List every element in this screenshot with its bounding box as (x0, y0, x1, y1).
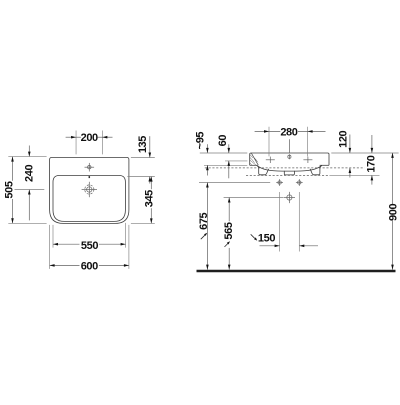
dimension 280 (fixing holes spacing) (255, 126, 326, 156)
svg-text:900: 900 (387, 204, 399, 221)
faucet hole (85, 163, 95, 172)
dashed reference line (bolt holes) (205, 167, 365, 169)
drain (82, 182, 97, 197)
svg-text:280: 280 (280, 126, 297, 138)
dimension 170 (rim to feet line) (366, 135, 378, 185)
svg-text:240: 240 (23, 165, 35, 182)
rim top edge and body sides (250, 153, 329, 165)
dimension ~95 (rim to body bottom) (194, 132, 208, 176)
svg-text:675: 675 (198, 212, 210, 229)
rim top extension lines (200, 152, 248, 154)
body bottom edge right (320, 164, 329, 166)
feet bottom dashed line + extension right (246, 174, 330, 176)
dimension 900 (rim height) (387, 153, 399, 270)
drain outlet symbol (284, 192, 295, 203)
svg-text:135: 135 (137, 136, 149, 153)
svg-text:60: 60 (217, 135, 229, 147)
dimension 565 (drain height) (223, 198, 235, 270)
body bottom edge left (250, 164, 258, 166)
tap hole (elevation) with centerline (288, 139, 291, 159)
water supply crosses (276, 179, 303, 186)
svg-text:170: 170 (366, 155, 378, 172)
supply level extension line (675) (199, 182, 270, 184)
dimension 240 (left, rim to drain) (15, 146, 45, 221)
floor line (197, 270, 396, 273)
dimension 150 (supply spacing) (251, 192, 318, 252)
dimension 345 (right, bowl depth) (131, 177, 156, 224)
body bottom extension line (~95) (204, 164, 247, 166)
right mounting foot (310, 165, 322, 174)
drain boss (284, 171, 294, 175)
basin outer outline (50, 158, 129, 224)
left mounting foot (257, 165, 269, 174)
svg-text:550: 550 (81, 240, 98, 252)
deck level extension line (60) (225, 160, 247, 162)
svg-text:200: 200 (81, 132, 98, 144)
svg-text:~95: ~95 (194, 132, 206, 150)
drain level extension line (565) (224, 197, 284, 199)
section hatch triangle (left end) (251, 153, 258, 165)
svg-text:120: 120 (337, 130, 349, 147)
overflow tick (88, 176, 90, 178)
dimension 505 (left, overall depth) (3, 157, 46, 224)
dimension 120 (rim to bolt line) (337, 130, 351, 177)
dimension 135 (right, rim to bowl) (127, 136, 154, 184)
svg-text:345: 345 (144, 190, 156, 207)
dimension 200 (tap hole spacing) (66, 131, 113, 155)
dimension 550 (bottom, bowl width) (53, 223, 126, 252)
dimension 675 (supply height) (198, 183, 210, 270)
svg-text:150: 150 (258, 232, 275, 244)
dimension 60 (rim to deck) (217, 135, 230, 179)
basin inner bowl outline (53, 175, 125, 221)
bowl underside curve (257, 165, 322, 171)
svg-text:505: 505 (3, 181, 15, 198)
svg-text:600: 600 (81, 260, 98, 272)
dimension 600 (bottom, overall width) (50, 225, 129, 272)
svg-text:565: 565 (223, 222, 235, 239)
fixing hole crosses on body (266, 157, 313, 163)
